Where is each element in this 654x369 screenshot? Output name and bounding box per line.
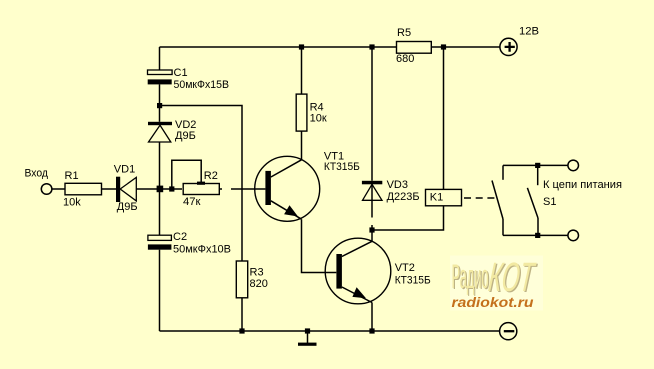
svg-text:680: 680 — [396, 53, 414, 65]
svg-text:820: 820 — [250, 278, 268, 290]
wiper arrow of R2 — [197, 182, 205, 185]
svg-text:C1: C1 — [174, 67, 188, 79]
node rail junction VD3 — [369, 44, 374, 49]
switch S1 bottom wire — [503, 234, 568, 236]
diode VD3 — [362, 181, 382, 230]
svg-text:Д223Б: Д223Б — [387, 191, 420, 203]
node input junction left — [157, 186, 164, 193]
wire K1 branch from rail — [443, 47, 445, 189]
wire input node to C2 — [159, 189, 161, 235]
node input junction right — [169, 186, 174, 191]
node rail junction K1 — [441, 44, 446, 49]
svg-text:VD3: VD3 — [387, 179, 408, 191]
svg-text:R3: R3 — [250, 267, 264, 279]
terminal input circle — [41, 184, 52, 195]
svg-text:R1: R1 — [65, 170, 79, 182]
wire VT2 collector to node — [371, 230, 373, 241]
wire left main vertical C1 top segment — [159, 47, 161, 70]
node VT2 emitter rail junction — [369, 328, 374, 333]
transistor VT2 — [325, 238, 391, 304]
ground — [298, 331, 317, 346]
resistor R2 (rheostat) — [183, 184, 219, 195]
node ground rail junction — [305, 328, 310, 333]
svg-text:VT2: VT2 — [395, 262, 415, 274]
node VD3 VT2 K1 junction — [369, 227, 374, 232]
watermark logo КОТ — [486, 254, 539, 301]
switch S1 top wire — [503, 164, 568, 166]
svg-text:50мкФх15В: 50мкФх15В — [174, 79, 230, 91]
node rail junction R4 — [299, 44, 304, 49]
wire node to R3 branch corner — [160, 106, 243, 262]
terminal +12V — [500, 38, 517, 55]
node R3 rail junction — [239, 328, 244, 333]
wire R4 top to rail — [301, 47, 303, 94]
node junction below C1 — [157, 103, 162, 108]
resistor R5 — [397, 42, 432, 54]
wire R2 wiper bracket — [172, 160, 201, 189]
svg-text:47к: 47к — [183, 196, 201, 208]
svg-text:S1: S1 — [543, 196, 556, 208]
svg-text:Д9Б: Д9Б — [117, 201, 138, 213]
resistor R4 — [296, 94, 307, 131]
wire dashed relay link — [464, 197, 496, 199]
node switch bottom junction — [535, 233, 540, 238]
diode VD1 — [116, 177, 136, 202]
terminal switch top — [568, 160, 579, 171]
wire R1 to VD1 — [102, 188, 117, 190]
wire C2 down to ground rail — [159, 250, 161, 331]
transistor VT1 — [255, 156, 320, 221]
terminal switch bottom — [568, 230, 579, 241]
wire top supply rail — [160, 46, 501, 48]
svg-text:10к: 10к — [310, 113, 327, 125]
relay coil K1 — [426, 189, 462, 205]
svg-text:50мкФх10В: 50мкФх10В — [173, 243, 231, 255]
svg-text:R2: R2 — [204, 170, 218, 182]
wire VT1 collector to R4 — [301, 131, 303, 160]
wire R3 bottom to rail — [241, 298, 243, 331]
wire VT1 emitter down and to VT2 base — [302, 219, 337, 272]
switch S1 left pole — [492, 165, 503, 235]
resistor R1 — [65, 183, 102, 195]
diode VD2 — [148, 122, 172, 142]
svg-text:КТ315Б: КТ315Б — [395, 275, 431, 287]
svg-text:Вход: Вход — [25, 167, 49, 179]
capacitor C1 — [148, 70, 173, 84]
svg-text:Д9Б: Д9Б — [175, 130, 196, 142]
svg-text:КТ315Б: КТ315Б — [324, 161, 360, 173]
watermark background — [450, 256, 543, 311]
capacitor C2 — [148, 235, 172, 250]
wire bottom ground rail — [160, 330, 501, 332]
svg-text:K1: K1 — [430, 191, 443, 203]
svg-text:R5: R5 — [397, 27, 411, 39]
svg-text:10k: 10k — [63, 197, 81, 209]
svg-text:radiokot.ru: radiokot.ru — [452, 295, 535, 310]
svg-text:12В: 12В — [519, 26, 539, 38]
wire to VT1 base — [231, 188, 265, 190]
svg-text:C2: C2 — [173, 231, 187, 243]
wire VD1 to R2 — [136, 188, 182, 190]
watermark logo Радио — [452, 258, 490, 297]
svg-text:VD1: VD1 — [114, 164, 135, 176]
wire VD2 to input node — [159, 142, 161, 189]
wire VD3 branch from rail — [371, 47, 373, 181]
wire VT2 emitter to rail — [371, 303, 373, 332]
switch S1 right pole — [527, 165, 538, 235]
wire input terminal to R1 — [52, 188, 65, 190]
node switch top junction — [535, 163, 540, 168]
wire C1 bottom to VD2 — [159, 84, 161, 121]
svg-text:КОТ: КОТ — [486, 254, 537, 300]
resistor R3 — [236, 261, 247, 298]
wire node to K1 bottom — [372, 206, 444, 230]
svg-text:К цепи питания: К цепи питания — [543, 179, 622, 191]
wire R2 right stub — [220, 188, 222, 190]
terminal -12V — [500, 323, 517, 340]
svg-text:Радио: Радио — [452, 258, 489, 296]
